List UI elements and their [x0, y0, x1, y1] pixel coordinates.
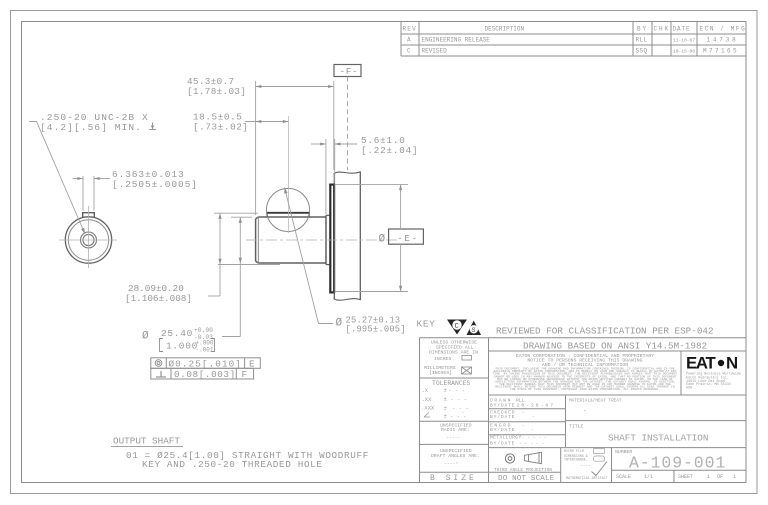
dimension 18.5 line — [245, 121, 289, 123]
revision row C — [407, 48, 739, 55]
woodruff key circle — [266, 188, 309, 231]
svg-text:DRAWING BASED ON ANSI Y14.5M-1: DRAWING BASED ON ANSI Y14.5M-1982 — [523, 340, 707, 351]
unless otherwise specified text — [424, 340, 478, 376]
svg-text:Eden Prairie, MN 55344: Eden Prairie, MN 55344 — [686, 382, 731, 387]
svg-text:REVIEWED FOR CLASSIFICATION PE: REVIEWED FOR CLASSIFICATION PER ESP-042 — [496, 326, 714, 337]
svg-text:- - -: - - - — [449, 387, 466, 394]
thread callout leader arrowhead — [81, 228, 85, 234]
svg-text:----°: ----° — [444, 461, 459, 467]
classification triangle down with C — [447, 320, 467, 335]
svg-text:- - - - -: - - - - - — [519, 442, 545, 447]
eaton notice text — [516, 353, 654, 368]
svg-text:[INCHES]: [INCHES] — [429, 370, 452, 376]
svg-text:INTERCHANGE.: INTERCHANGE. — [564, 457, 588, 461]
key flat top — [267, 212, 309, 214]
dimension 25.40 line — [239, 217, 241, 336]
svg-text:BY/DATE: BY/DATE — [490, 441, 515, 447]
svg-text:-F-: -F- — [340, 66, 359, 77]
inches checkbox — [462, 356, 472, 361]
svg-text:-: - — [522, 410, 525, 415]
dimension 5.6 lines and arrows — [311, 143, 326, 145]
perpendicularity symbol — [156, 371, 166, 377]
unspecified radii text — [431, 422, 480, 467]
svg-text:±: ± — [444, 413, 447, 420]
svg-text:Ø0.25[.010]: Ø0.25[.010] — [169, 358, 242, 369]
datum F label box — [334, 65, 361, 77]
svg-text:DATE: DATE — [673, 26, 691, 33]
dimension 25.40 extension line — [231, 216, 252, 218]
datum F dashed leader — [347, 77, 349, 171]
svg-text:M77165: M77165 — [703, 48, 739, 55]
svg-text:INCHES: INCHES — [434, 356, 451, 362]
svg-text:A: A — [407, 37, 411, 44]
svg-text:S: S — [472, 327, 476, 334]
svg-text:±: ± — [444, 405, 447, 412]
svg-text:Ø: Ø — [379, 234, 386, 246]
svg-text:[1.78±.03]: [1.78±.03] — [187, 86, 246, 97]
dimension 45.3 line — [256, 86, 334, 88]
svg-text:- - -: - - - — [451, 396, 468, 403]
svg-text:11-10-87: 11-10-87 — [673, 38, 695, 44]
svg-text:SHEET: SHEET — [678, 474, 693, 480]
end view outer circle — [65, 217, 111, 263]
svg-text:[.22±.04]: [.22±.04] — [361, 145, 418, 156]
svg-text:0.08[.003]: 0.08[.003] — [174, 369, 236, 380]
svg-text:DESCRIPTION: DESCRIPTION — [485, 26, 525, 33]
svg-text:1/1: 1/1 — [644, 474, 653, 480]
eaton legal fine print — [493, 367, 678, 391]
third angle projection symbol circle — [505, 454, 514, 463]
svg-text:.XX: .XX — [422, 396, 433, 403]
svg-text:[1.106±.008]: [1.106±.008] — [125, 293, 192, 304]
dimension 45.3 extension lines — [255, 81, 257, 215]
svg-text:B SIZE: B SIZE — [430, 474, 477, 483]
svg-text:BY/DATE: BY/DATE — [490, 427, 515, 433]
svg-text:°: ° — [462, 412, 464, 417]
end view vertical centerline — [88, 206, 90, 268]
millimeters checkbox with X — [462, 367, 472, 374]
svg-text:ENGINEERING RELEASE: ENGINEERING RELEASE — [422, 37, 491, 44]
svg-text:DO NOT SCALE: DO NOT SCALE — [498, 475, 555, 483]
dimension 28.09 extension lines — [214, 212, 258, 214]
end view inner circle — [68, 220, 108, 260]
dimension 5.6 extension lines — [325, 139, 327, 214]
shoulder ring — [326, 215, 330, 264]
svg-text:REVISED: REVISED — [422, 48, 448, 55]
svg-text:SSQ: SSQ — [636, 48, 648, 55]
svg-text:1.000: 1.000 — [166, 341, 198, 352]
shaft axis centerline — [246, 239, 398, 241]
svg-text:SHAFT INSTALLATION: SHAFT INSTALLATION — [608, 433, 708, 444]
datum E dimension line — [400, 184, 402, 229]
datum E label box — [389, 229, 424, 244]
svg-text:14738: 14738 — [707, 37, 739, 44]
washer dark band — [330, 185, 334, 293]
svg-text:----: ---- — [580, 464, 591, 469]
svg-text:Ø: Ø — [336, 318, 343, 330]
svg-text:THE STATE OF THIS DOCUMENT.: THE STATE OF THIS DOCUMENT. COPYRIGHT 20… — [510, 387, 660, 391]
svg-text:-E-: -E- — [397, 233, 419, 244]
shaft body outline — [256, 215, 326, 264]
title block frame — [420, 338, 747, 483]
dimension 28.09 line — [219, 213, 221, 296]
svg-text:Ø: Ø — [142, 331, 149, 343]
svg-text:METALLURGY: METALLURGY — [490, 435, 522, 441]
svg-text:.XXX: .XXX — [421, 405, 435, 412]
svg-text:-: - — [532, 415, 535, 420]
svg-text:ECN / MFG: ECN / MFG — [700, 26, 747, 33]
mounting plate right edge — [359, 172, 361, 300]
classification triangle up with S — [467, 321, 482, 336]
svg-text:N: N — [726, 353, 738, 372]
key vertical centerline — [288, 116, 290, 233]
svg-text:OF: OF — [717, 474, 723, 480]
revision row A — [407, 37, 739, 44]
scale sheet row — [616, 474, 736, 480]
svg-text:RLL: RLL — [636, 37, 648, 44]
svg-text:-: - — [531, 428, 534, 433]
svg-text:DRAFT ANGLES ARE:: DRAFT ANGLES ARE: — [431, 453, 480, 459]
eaton address — [686, 371, 741, 390]
key flat end ticks — [266, 213, 268, 217]
svg-text:- - - - -: - - - - - — [522, 436, 548, 441]
svg-text:KEY AND .250-20 THREADED HOLE: KEY AND .250-20 THREADED HOLE — [142, 459, 323, 470]
svg-text:[.2505±.0005]: [.2505±.0005] — [112, 179, 198, 190]
svg-text:10-15-08: 10-15-08 — [673, 49, 695, 55]
svg-text:KEY: KEY — [417, 319, 436, 330]
thread callout leader — [29, 122, 85, 235]
threaded hole outer circle — [81, 232, 97, 248]
key diameter callout leader — [285, 188, 334, 324]
datum E extension lines — [335, 183, 408, 185]
svg-text:RADII ARE:: RADII ARE: — [441, 427, 470, 433]
svg-text:CHK: CHK — [654, 26, 671, 33]
angle symbol — [424, 413, 430, 418]
drawn by cell text — [490, 397, 555, 446]
svg-text:-: - — [583, 408, 587, 415]
svg-text:C: C — [407, 48, 411, 55]
svg-text:A-109-001: A-109-001 — [629, 454, 726, 473]
shaft chamfer inner line — [257, 217, 259, 263]
end view horizontal centerline — [59, 239, 117, 241]
svg-text:F: F — [242, 369, 248, 380]
svg-text:+.000: +.000 — [196, 340, 214, 347]
revision table header text — [403, 26, 747, 33]
svg-text:DRAWN: DRAWN — [490, 397, 512, 403]
dimension 6.363 extension lines — [82, 176, 84, 211]
svg-text:+0.00: +0.00 — [194, 327, 213, 334]
plate bottom break line — [334, 299, 361, 301]
svg-text:REV: REV — [403, 26, 417, 33]
third angle projection symbol cone — [525, 452, 542, 463]
svg-text:[4.2][.56] MIN.: [4.2][.56] MIN. — [40, 122, 142, 133]
microfilm checkbox cell — [564, 449, 608, 480]
svg-text:EAT: EAT — [686, 353, 716, 372]
concentricity symbol — [155, 360, 162, 367]
keyway tab on end view — [83, 213, 95, 218]
svg-text:1: 1 — [707, 474, 710, 480]
svg-text:- - -: - - - — [452, 405, 469, 412]
svg-text:MATHEMATICAL ARTIFACT: MATHEMATICAL ARTIFACT — [566, 476, 608, 480]
svg-text:-----: ----- — [446, 436, 461, 441]
svg-text:TITLE: TITLE — [569, 424, 584, 430]
checkmark — [592, 462, 608, 476]
svg-text:BY/DATE: BY/DATE — [490, 403, 515, 409]
svg-text:RLL: RLL — [516, 397, 525, 403]
feature control frame 1 — [151, 358, 260, 369]
svg-text:±: ± — [444, 387, 447, 394]
threaded hole inner circle — [83, 234, 94, 245]
mounting plate left edge — [333, 174, 335, 300]
dimension 6.363 lines and arrows — [73, 178, 84, 180]
svg-text:DIMENSIONS ARE IN: DIMENSIONS ARE IN — [429, 350, 478, 356]
svg-text:10-28-87: 10-28-87 — [517, 403, 556, 409]
svg-text:25.40: 25.40 — [161, 328, 193, 339]
svg-text:1: 1 — [733, 474, 736, 480]
svg-text:C: C — [455, 323, 459, 331]
depth symbol — [149, 123, 156, 130]
svg-text:THIRD ANGLE PROJECTION: THIRD ANGLE PROJECTION — [494, 468, 552, 473]
svg-text:E: E — [249, 358, 255, 369]
feature control frame 2 — [151, 368, 254, 379]
svg-text:BY: BY — [637, 26, 648, 33]
svg-text:BY/DATE: BY/DATE — [490, 414, 515, 420]
svg-text:MICRO FILM: MICRO FILM — [564, 449, 584, 453]
svg-text:USA: USA — [686, 387, 693, 391]
svg-text:OUTPUT SHAFT: OUTPUT SHAFT — [113, 436, 180, 447]
svg-text:TOLERANCES: TOLERANCES — [432, 380, 471, 387]
revision table frame — [401, 22, 746, 56]
svg-text:±: ± — [444, 396, 447, 403]
svg-text:[.73±.02]: [.73±.02] — [193, 122, 249, 133]
svg-text:-.001: -.001 — [196, 347, 214, 354]
svg-text:SCALE: SCALE — [616, 474, 631, 480]
svg-text:MATERIAL&/HEAT TREAT: MATERIAL&/HEAT TREAT — [569, 399, 622, 404]
svg-text:.X: .X — [422, 387, 429, 394]
svg-text:[.995±.005]: [.995±.005] — [346, 325, 406, 335]
plate top break line — [334, 172, 361, 174]
svg-text:-: - — [522, 423, 525, 428]
